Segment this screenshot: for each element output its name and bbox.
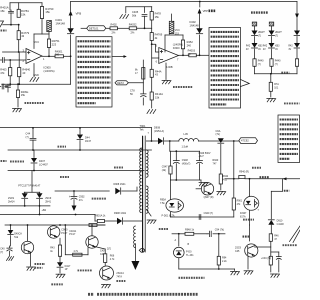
svg-text:D402: D402: [190, 20, 197, 24]
resistor R946: [255, 234, 280, 256]
transformer secondary winding upper: [146, 150, 148, 177]
resistor R414A: [150, 92, 163, 108]
shunt TL431: [174, 243, 195, 269]
svg-text:D908 1N41: D908 1N41: [114, 212, 127, 215]
resistor R4x3: [50, 238, 61, 262]
svg-text:1N4148: 1N4148: [190, 23, 200, 27]
svg-text:47k: 47k: [0, 71, 5, 75]
label astable osc: [78, 269, 93, 271]
svg-text:R4001: R4001: [55, 49, 63, 53]
wire opto down: [249, 210, 251, 225]
resistor R409: [16, 84, 29, 107]
wire ref bottom: [179, 268, 235, 270]
wire reg rail: [170, 180, 172, 200]
svg-text:R4640: R4640: [22, 68, 30, 72]
zener D44: [77, 127, 92, 150]
terminal J1: [252, 22, 257, 31]
optocoupler IC907: [240, 196, 260, 218]
label op-amp section: [25, 102, 45, 104]
wire U2 output: [179, 54, 189, 56]
resistor R7A: [269, 74, 279, 97]
wire fb drop: [249, 225, 251, 241]
transistor Q403: [21, 225, 33, 266]
wire mid rail C: [8, 170, 144, 172]
svg-text:1N4148: 1N4148: [56, 22, 66, 26]
resistor R905: [89, 224, 105, 227]
svg-text:R414A: R414A: [155, 92, 163, 96]
resistor R948: [185, 228, 207, 235]
wire osc left rail: [65, 225, 88, 255]
wire VCC2: [165, 35, 183, 52]
svg-text:101: 101: [274, 86, 279, 89]
wire VCC feed: [34, 34, 50, 49]
leader lines: [290, 226, 301, 243]
svg-text:4V: 4V: [258, 49, 261, 51]
wire U1A +input: [3, 51, 27, 53]
wire ref top: [172, 233, 185, 235]
label IC900 1/4OPA: [44, 66, 55, 73]
wire node A: [3, 24, 20, 26]
svg-text:(7): (7): [0, 251, 3, 254]
svg-text:240: 240: [187, 43, 192, 47]
svg-text:PTC1377 PNA4147: PTC1377 PNA4147: [18, 185, 41, 188]
ground filter: [199, 180, 208, 186]
label R95A: [160, 199, 166, 205]
svg-text:56k: 56k: [132, 13, 137, 17]
zener D923: [288, 43, 305, 59]
transistor Q906 power: [100, 266, 126, 281]
svg-text:43: 43: [21, 34, 24, 38]
wire zener branch: [271, 179, 289, 192]
svg-text:R452: R452: [187, 40, 194, 44]
zener D417: [57, 262, 71, 273]
svg-text:R42: R42: [288, 46, 293, 48]
wire bus corner: [151, 128, 153, 142]
svg-text:D401: D401: [56, 18, 63, 22]
svg-text:15k: 15k: [21, 12, 26, 16]
net tag 47C9: [239, 138, 258, 144]
wire reg bottom: [171, 212, 234, 217]
svg-text:R42: R42: [263, 46, 268, 48]
transistor Q404: [48, 226, 69, 238]
net tag P2: [115, 60, 143, 85]
svg-text:747: 747: [213, 162, 218, 165]
zener D911: [252, 31, 266, 44]
svg-text:(4k): (4k): [162, 169, 166, 172]
svg-text:4V: 4V: [246, 49, 249, 51]
wire filter bottom: [171, 179, 202, 181]
svg-text:4.7k: 4.7k: [110, 258, 115, 261]
capacitor C947: [207, 228, 225, 236]
capacitor C78: [130, 83, 146, 105]
svg-text:PC17: PC17: [69, 233, 76, 236]
label OVP network: [251, 11, 269, 13]
wire osc feed: [55, 190, 109, 192]
wire hot bus: [0, 127, 152, 129]
label decouple: [58, 146, 67, 148]
net tag DET101: [81, 26, 110, 31]
resistor R906: [104, 249, 116, 266]
resistor R4003: [188, 49, 209, 56]
ground C406: [7, 257, 14, 261]
transformer primary winding lower: [134, 226, 136, 261]
ground top mid: [120, 7, 129, 19]
svg-text:R940 (R): R940 (R): [239, 171, 249, 174]
wire secondary out: [146, 140, 157, 142]
capacitor C944: [261, 252, 281, 272]
svg-text:360: 360: [55, 53, 60, 57]
wire OVP bus: [255, 73, 298, 75]
op-amp U1A: [23, 49, 46, 64]
arrow drive: [283, 177, 287, 180]
label L45: [182, 132, 189, 149]
label osc circuit: [92, 198, 107, 200]
wire bottom blk top: [5, 224, 105, 226]
svg-text:+C94 (7k): +C94 (7k): [261, 258, 271, 260]
label temp adjust: [173, 86, 193, 88]
resistor R901A: [95, 214, 117, 222]
svg-text:R4781: R4781: [21, 9, 29, 13]
svg-text:C41: C41: [100, 253, 105, 256]
svg-text:(7): (7): [258, 63, 261, 66]
svg-text:15k: 15k: [21, 93, 26, 97]
resistor R478: [150, 7, 161, 33]
svg-text:2.2k: 2.2k: [222, 260, 227, 263]
resistor R4790: [40, 7, 53, 35]
svg-text:R402: R402: [111, 23, 118, 27]
resistor R450: [150, 33, 163, 70]
wire rbot join: [271, 251, 279, 253]
svg-text:1N47: 1N47: [85, 140, 92, 143]
wire low rail 2: [95, 215, 97, 222]
ground left block: [13, 109, 22, 112]
svg-text:2N41: 2N41: [45, 200, 51, 203]
svg-text:7.5k: 7.5k: [160, 202, 165, 205]
svg-text:C405: C405: [132, 10, 139, 14]
svg-text:Q947 (R): Q947 (R): [204, 196, 214, 199]
label sampling R: [35, 264, 46, 268]
zener D912: [269, 31, 283, 44]
connector left edge: [0, 21, 4, 27]
svg-text:47u: 47u: [79, 199, 84, 202]
label opto transistor: [283, 244, 298, 246]
wire clamp bottom: [0, 205, 50, 212]
label IC900 U2: [173, 43, 183, 49]
resistor R953: [295, 59, 306, 74]
diode D909: [114, 183, 138, 194]
svg-text:L45: L45: [184, 132, 189, 136]
svg-text:2(7): 2(7): [107, 249, 111, 251]
label xfmr pin7: [148, 132, 150, 135]
arrow C902: [72, 206, 77, 212]
label vref: [179, 277, 205, 279]
svg-text:4V: 4V: [263, 49, 266, 51]
svg-text:PC47: PC47: [61, 232, 68, 235]
svg-text:+B2: +B2: [42, 209, 47, 212]
ground mid rail: [147, 110, 156, 114]
svg-text:2k414: 2k414: [8, 200, 15, 203]
svg-text:(1N54.A): (1N54.A): [154, 130, 164, 133]
resistor R4001: [55, 49, 64, 58]
resistor R8k: [135, 68, 145, 80]
transformer secondary winding mid: [146, 186, 148, 213]
thermistor RT1: [47, 21, 52, 40]
svg-text:Tek: Tek: [140, 127, 145, 131]
svg-text:R4790: R4790: [45, 7, 53, 11]
label C40 C41: [100, 249, 105, 255]
label T901: [140, 124, 146, 131]
wire sec tap down: [233, 141, 235, 198]
svg-text:1P: 1P: [65, 268, 68, 271]
resistor R941: [232, 198, 243, 217]
capacitor C406: [0, 246, 12, 256]
ground Q909: [244, 256, 253, 274]
transistor Q905: [86, 225, 98, 248]
resistor R947b: [269, 256, 272, 272]
resistor R951: [253, 59, 264, 74]
label PTC: [18, 185, 41, 188]
inductor L45: [179, 139, 239, 141]
ground Q906: [102, 285, 111, 288]
zener D946: [37, 192, 52, 206]
wire filter top: [170, 141, 200, 152]
svg-text:DET101: DET101: [89, 26, 99, 30]
wire U1A output: [42, 55, 55, 57]
label transformer pin: [284, 102, 300, 104]
capacitor C404: [6, 84, 11, 92]
text box note 3: [278, 115, 300, 163]
resistor R942: [213, 144, 229, 190]
svg-text:R4032: R4032: [129, 23, 137, 27]
diode D908: [154, 127, 179, 145]
resistor R4751: [47, 39, 60, 56]
ground U1A: [30, 64, 39, 82]
terminal J2: [269, 22, 274, 31]
svg-text:R901A 1k: R901A 1k: [95, 214, 106, 217]
label drive: [252, 168, 270, 177]
svg-text:4V: 4V: [288, 49, 291, 51]
ground ref: [231, 269, 240, 275]
transformer sec tap gnd: [146, 210, 156, 224]
resistor R947: [162, 151, 172, 180]
svg-text:(400x7): (400x7): [182, 162, 191, 165]
resistor R401A label: [0, 6, 8, 13]
ground D417: [56, 274, 65, 277]
svg-text:223: 223: [52, 42, 57, 46]
svg-text:(7): (7): [258, 34, 261, 37]
callout arrow 1: [112, 55, 127, 58]
svg-text:4V: 4V: [275, 49, 278, 51]
zener D922: [263, 43, 280, 59]
svg-text:C940 (7): C940 (7): [204, 212, 214, 215]
svg-text:(7k): (7k): [216, 133, 220, 136]
svg-text:15k: 15k: [45, 10, 50, 14]
label left edge mid: [1, 30, 7, 32]
capacitor C401: [9, 10, 14, 25]
label feedback: [243, 236, 251, 238]
wire clamp drop: [39, 206, 41, 216]
label 4.00B: [166, 66, 173, 69]
text box note 1: [76, 37, 112, 107]
svg-text:R42: R42: [246, 46, 251, 48]
ground OVP: [267, 99, 276, 102]
caption: [88, 293, 198, 296]
svg-text:47C92: 47C92: [241, 139, 249, 143]
svg-text:R901: R901: [237, 201, 243, 203]
transistor Q947: [196, 183, 214, 199]
svg-text:TL-431: TL-431: [186, 254, 194, 257]
label phase protect: [51, 283, 63, 285]
diode D911: [114, 212, 143, 224]
svg-text:R4779: R4779: [21, 31, 29, 35]
capacitor C902: [69, 191, 85, 206]
resistor R402: [110, 23, 129, 35]
zener D921: [246, 43, 263, 59]
capacitor C948: [173, 151, 190, 180]
label common gnd: [60, 168, 123, 178]
shunt reg P-D01: [162, 199, 184, 218]
svg-text:C3: C3: [141, 248, 145, 252]
resistor R4032: [129, 23, 152, 35]
wire bottom node: [2, 83, 71, 85]
resistor R4779: [17, 25, 30, 52]
svg-text:15k: 15k: [0, 9, 5, 13]
capacitor C940: [199, 212, 213, 219]
wire U2 inputs: [151, 43, 159, 58]
label opto: [243, 219, 254, 221]
svg-text:KB3: KB3: [275, 46, 280, 48]
resistor R44A: [150, 69, 162, 92]
resistor R452: [181, 35, 193, 56]
transformer core: [143, 136, 146, 252]
thermistor RT2: [169, 14, 180, 35]
svg-text:1.5uH: 1.5uH: [182, 146, 189, 149]
svg-text:+: +: [69, 195, 71, 199]
wire zener drop: [270, 191, 272, 219]
zener D910: [268, 219, 284, 233]
svg-text:R478: R478: [155, 11, 162, 15]
svg-text:VFB: VFB: [76, 12, 82, 16]
diode D401 1N4148: [56, 11, 74, 57]
arrow chain3: [295, 14, 299, 31]
resistor R463: [0, 59, 12, 84]
svg-text:R409s: R409s: [21, 90, 29, 94]
wire main low bus: [0, 214, 95, 216]
resistor R4781: [17, 9, 29, 17]
net tag C9: [107, 248, 145, 252]
label C4011: [69, 230, 77, 236]
label rect area: [159, 228, 169, 230]
ground U2: [162, 63, 171, 84]
resistor R949: [217, 233, 227, 269]
capacitor C403: [0, 84, 8, 89]
wire top-left rail: [10, 3, 42, 10]
svg-text:4.00B: 4.00B: [166, 66, 173, 69]
svg-text:VPP: VPP: [203, 9, 209, 13]
op-amp U2: [156, 45, 179, 64]
svg-text:15k: 15k: [155, 15, 160, 19]
svg-text:153: 153: [175, 32, 180, 35]
capacitor C44: [26, 127, 37, 150]
svg-text:DET2: DET2: [117, 81, 124, 85]
resistor R906h: [73, 251, 82, 256]
svg-text:C45: C45: [235, 250, 240, 253]
svg-text:R401A: R401A: [0, 6, 8, 10]
label left edge low: [1, 160, 7, 162]
arrow transformer bottom: [131, 261, 139, 270]
svg-text:15k: 15k: [155, 95, 160, 99]
zener D945: [8, 192, 28, 206]
wire top mid rail: [126, 6, 152, 8]
capacitor C949: [197, 151, 211, 180]
svg-text:R4769: R4769: [155, 33, 163, 37]
wire opto drop: [249, 179, 251, 197]
label small signal: [10, 160, 24, 162]
wire mid rail B: [8, 149, 152, 151]
capacitor C402 input: [0, 58, 26, 63]
svg-text:C4148: C4148: [277, 223, 285, 226]
wire output node: [64, 55, 72, 84]
svg-text:(7): (7): [275, 63, 278, 66]
zener C9A: [216, 130, 235, 143]
wire VPP bus: [71, 1, 297, 13]
ground Q403: [27, 267, 36, 270]
resistor R940: [239, 171, 249, 179]
ground right pair: [271, 274, 280, 277]
svg-text:R44A: R44A: [155, 69, 162, 73]
svg-text:IC900: IC900: [44, 66, 52, 70]
transistor Q909: [235, 244, 258, 257]
svg-text:T901: T901: [140, 124, 146, 128]
wire clamp top: [24, 171, 40, 193]
svg-text:747A: 747A: [116, 275, 122, 278]
text box note 2: [209, 28, 241, 109]
svg-text:817A: 817A: [240, 215, 246, 218]
svg-text:(1/4OPA): (1/4OPA): [44, 69, 55, 73]
svg-text:IC900: IC900: [173, 47, 180, 50]
zener D40CA: [8, 225, 23, 246]
svg-text:(7): (7): [275, 34, 278, 37]
ground R942: [217, 192, 226, 195]
wire Q905 emitter: [95, 247, 105, 249]
svg-text:(7): (7): [26, 136, 29, 139]
svg-text:D908 1N41: D908 1N41: [114, 183, 127, 186]
resistor R4640: [18, 52, 31, 84]
transformer primary winding: [140, 148, 142, 213]
wire ref left: [175, 234, 179, 246]
terminal VPP out: [198, 9, 216, 14]
svg-text:C94 (7k): C94 (7k): [215, 228, 224, 231]
callout pointer 2: [241, 80, 250, 87]
svg-text:LC4407: LC4407: [39, 163, 48, 166]
diode D402 1N4148: [190, 14, 203, 56]
svg-text:R4751: R4751: [52, 39, 60, 43]
diode D407: [31, 150, 48, 171]
wire drive line: [225, 178, 300, 180]
zener D913: [294, 31, 308, 44]
label VFB: [76, 12, 82, 16]
svg-text:R948 1k: R948 1k: [185, 228, 195, 231]
resistor R952: [270, 59, 281, 74]
capacitor C405: [132, 7, 147, 29]
svg-text:R463: R463: [0, 68, 7, 72]
